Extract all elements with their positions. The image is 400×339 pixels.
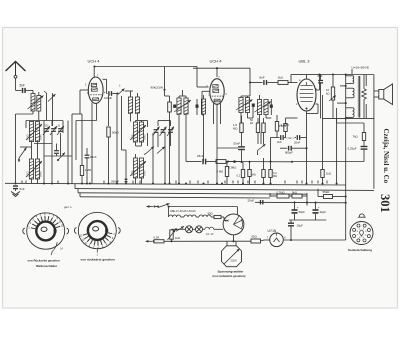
trimmer arrow L7 <box>130 161 146 176</box>
wire V3 cathode loop <box>305 104 318 114</box>
svg-text:32μF: 32μF <box>320 210 327 214</box>
coil IF2 secondary <box>245 98 249 119</box>
switch S3 <box>144 147 154 155</box>
wire V2 grid pins left <box>202 91 210 115</box>
heater filament chain <box>169 215 211 217</box>
svg-text:von Rückseite gesehen: von Rückseite gesehen <box>28 259 60 263</box>
switch S4 <box>157 147 165 154</box>
resistor 7kOhm <box>353 123 366 146</box>
capacitor 10nF to ground <box>13 185 25 191</box>
pilot lamp 1 <box>172 226 193 233</box>
capacitor padder c <box>57 126 64 135</box>
transformer T1 primary section 3 <box>346 108 354 118</box>
capacitor 50uF electrolytic <box>292 202 306 220</box>
label D2 caption <box>81 258 115 262</box>
wire AF line <box>186 161 202 163</box>
resistor grid leak b <box>269 160 277 183</box>
capacitor 6.3nF <box>85 148 97 184</box>
antenna <box>6 62 26 76</box>
wire V1 grid left <box>80 90 89 114</box>
bus stubs <box>22 181 327 184</box>
svg-text:25nF: 25nF <box>197 154 204 158</box>
mains input terminal lower <box>146 240 155 243</box>
bus junction dots <box>89 182 338 184</box>
coil oscillator A <box>128 91 133 114</box>
svg-text:1kΩ: 1kΩ <box>326 172 331 176</box>
resistor 0.1MOhm <box>275 115 289 138</box>
svg-text:Spannungswähler: Spannungswähler <box>218 270 245 274</box>
switch S7 shorting <box>175 226 184 231</box>
coil oscillator B <box>135 93 139 120</box>
resistor 150Ohm <box>279 118 298 138</box>
trimmer arrow IF3 <box>255 102 272 113</box>
resistor volume b <box>248 161 256 185</box>
wire AF junctions <box>226 160 293 163</box>
bus E power <box>255 201 346 220</box>
svg-text:1kΩ: 1kΩ <box>278 76 284 80</box>
coil L6 <box>139 121 143 147</box>
rectifier V4 UY1N <box>270 233 284 247</box>
svg-text:UBL3 UCH4 UCH4: UBL3 UCH4 UCH4 <box>170 209 196 213</box>
resistor 1.8MOhm <box>233 116 243 133</box>
wire coil bottoms to rail <box>32 179 38 184</box>
label coil values mid lower <box>131 170 147 176</box>
trimmer arrow antenna coil <box>28 96 44 110</box>
wire B+ taps <box>323 85 347 120</box>
coil IF2 primary <box>239 96 243 123</box>
wire verticals left cluster <box>44 121 68 184</box>
tube V3 label UBL3 <box>299 59 311 64</box>
resistor 2MOhm <box>217 162 229 185</box>
svg-text:Wellenschalter: Wellenschalter <box>36 264 58 268</box>
wire coil return to ground rail <box>16 111 34 184</box>
gramophone Gr terminals <box>284 136 296 140</box>
svg-text:kΩ: kΩ <box>326 92 330 96</box>
svg-text:5nF: 5nF <box>20 187 25 191</box>
trimmer arrow on L1 <box>26 124 42 140</box>
wire selector to mains <box>232 235 234 243</box>
svg-text:0,25μF: 0,25μF <box>348 147 357 151</box>
capacitor 20nF Gr <box>294 135 307 144</box>
svg-text:0,3MΩ: 0,3MΩ <box>228 166 236 170</box>
label coil values lower <box>26 171 43 177</box>
resistor 1kOhm screen <box>321 170 331 184</box>
resistor volume a <box>237 162 245 184</box>
node dots left <box>14 182 88 184</box>
svg-text:+: + <box>297 206 299 210</box>
svg-text:( Gr ): ( Gr ) <box>287 136 294 140</box>
coil L7 <box>133 158 137 184</box>
svg-text:50μF: 50μF <box>299 210 306 214</box>
wire V1 anode right <box>0 0 1 1</box>
transformer T1 core <box>358 76 360 118</box>
tube socket pinout <box>350 214 373 245</box>
wire V3 cathode down <box>305 114 307 184</box>
coil L1 0.5/9540 <box>29 122 33 142</box>
coil IF3 primary <box>257 95 261 123</box>
resistor 50kOhm ps <box>250 118 260 144</box>
wire 1.8M to 50nF <box>241 133 243 147</box>
capacitor trimmer b <box>50 126 57 135</box>
capacitor small a <box>54 144 59 157</box>
wire UY1N pins <box>264 237 346 242</box>
capacitor 100pF trimmer a <box>43 126 50 135</box>
svg-text:kΩ: kΩ <box>250 121 253 125</box>
svg-text:UCH 4: UCH 4 <box>88 59 101 64</box>
capacitor IF2 a <box>252 104 255 107</box>
coil IF1 third <box>201 95 205 162</box>
resistor heater dropper 90Ohm <box>208 212 229 221</box>
tube V1 internals <box>85 75 106 101</box>
switch S5 gram <box>258 133 266 156</box>
switch S1b <box>57 153 65 162</box>
svg-text:50nF: 50nF <box>234 142 241 146</box>
label 100 trimmer <box>45 126 50 128</box>
mains switch S6 <box>155 203 238 207</box>
wire verticals x72 x76 <box>72 114 82 184</box>
coil L8 <box>139 158 143 184</box>
capacitor IF1 a <box>173 105 176 108</box>
switch S0 antenna range <box>44 91 56 126</box>
dial drum D1 wave switch front <box>23 212 69 255</box>
tube V1 UCH4 envelope <box>88 77 103 103</box>
svg-text:von rückwärts gesehen: von rückwärts gesehen <box>81 258 115 262</box>
svg-text:110: 110 <box>225 219 230 223</box>
wire V1 pin5 right <box>103 79 108 93</box>
svg-text:0,7MΩ: 0,7MΩ <box>277 191 285 195</box>
capacitor 2nF Gr <box>277 135 284 144</box>
transformer T1 primary section 2 <box>346 88 354 98</box>
capacitor 25nF mains <box>248 198 264 204</box>
wire IF1 top <box>179 90 186 184</box>
svg-text:20nF: 20nF <box>294 141 301 145</box>
wire antenna to 5nF <box>16 78 22 90</box>
capacitor IF3 a <box>270 99 273 115</box>
svg-text:25nF: 25nF <box>248 198 255 202</box>
coil IF1 primary <box>177 96 181 118</box>
tube V1 label UCH4 <box>88 59 101 64</box>
trimmer arrow L5 <box>130 125 146 140</box>
svg-text:50kΩ: 50kΩ <box>112 131 120 135</box>
voltage selector rear octagon <box>222 246 242 267</box>
ground symbol <box>11 192 20 197</box>
capacitor 50nF <box>217 142 245 164</box>
wire osc coil bottoms <box>122 113 131 184</box>
svg-text:250pF: 250pF <box>111 180 119 184</box>
wire V3 anode to rail <box>307 73 346 90</box>
wire bus drop 90k node <box>163 67 165 91</box>
tube V2 label UCH4 <box>210 59 223 64</box>
voltage selector V front <box>223 214 244 235</box>
wire speaker frame <box>366 75 374 189</box>
transformer T1 primary section 1 <box>346 76 354 84</box>
svg-text:MΩ: MΩ <box>252 174 256 177</box>
trimmer arrow IF2 <box>236 100 253 111</box>
svg-text:150Ω: 150Ω <box>279 124 287 128</box>
label Sockelschaltung <box>348 248 372 252</box>
wire 7k top <box>337 118 364 123</box>
wire V2 top cap to bus2 <box>216 67 218 77</box>
svg-text:U=16÷50/VE: U=16÷50/VE <box>352 65 370 69</box>
tube V2 internals <box>206 76 227 102</box>
coil L2 9540 <box>35 122 39 142</box>
bus D <box>80 193 270 198</box>
capacitor 6nF <box>318 74 324 118</box>
rectifier V4 label UY1N <box>268 229 277 233</box>
svg-text:90kΩ/1W: 90kΩ/1W <box>151 86 164 90</box>
resistor 55kOhm <box>318 189 347 199</box>
svg-text:0,5A: 0,5A <box>154 236 160 240</box>
svg-text:MΩ: MΩ <box>233 127 237 131</box>
band switch S1 <box>18 148 27 163</box>
svg-text:90Ω: 90Ω <box>208 212 213 216</box>
wire AF to 0.25uF <box>292 161 364 163</box>
coil IF1 secondary <box>184 96 188 118</box>
svg-text:5nF: 5nF <box>20 84 26 88</box>
svg-text:UCH 4: UCH 4 <box>210 59 223 64</box>
resistor 1kOhm coupling <box>268 76 298 85</box>
dial drum D2 wave switch rear <box>74 212 120 256</box>
mains input terminal upper <box>147 205 156 208</box>
capacitor 0.25uF <box>348 146 368 162</box>
label Spannungswaehler <box>213 270 246 278</box>
heater labels <box>170 209 196 213</box>
wire IF2-IF3 link <box>248 107 272 118</box>
resistor 9kOhm <box>289 191 307 206</box>
wire Gr line <box>271 138 280 162</box>
wire screen rail <box>323 95 337 184</box>
fuse 0.5A <box>154 236 252 243</box>
svg-text:65Ω: 65Ω <box>252 235 257 239</box>
resistor 1kOhm mains <box>168 230 181 243</box>
wire V1 pins down <box>76 103 97 184</box>
wire V2 pins down <box>214 104 221 184</box>
wire heater drop <box>168 205 170 217</box>
capacitor 5nF <box>20 84 26 93</box>
label D1 caption <box>28 259 60 263</box>
svg-text:1kΩ: 1kΩ <box>175 236 180 240</box>
capacitor 100pF coupling <box>104 91 117 100</box>
capacitor 10uF <box>288 220 303 240</box>
label Wellenschalter <box>36 264 58 268</box>
antenna terminal <box>14 75 17 78</box>
svg-text:63nF: 63nF <box>90 155 97 159</box>
svg-text:0,1 1V: 0,1 1V <box>206 232 214 236</box>
coil IF3 secondary <box>264 100 268 119</box>
coil L3 lower <box>29 142 33 180</box>
coil antenna transformer secondary <box>37 92 41 121</box>
tube V3 internals <box>296 79 318 106</box>
coil antenna transformer primary <box>31 94 35 112</box>
ballast resistor UY1N heater <box>205 227 223 236</box>
wire top bus 2 <box>193 67 250 69</box>
wire mid horizontals <box>20 144 72 157</box>
resistor 0.7MOhm <box>270 191 289 199</box>
bus B <box>75 184 374 191</box>
svg-text:7kΩ: 7kΩ <box>353 135 359 139</box>
transformer T1 rail <box>345 73 347 240</box>
resistor 10kOhm tone <box>326 73 336 118</box>
svg-text:2 MΩ: 2 MΩ <box>217 170 224 174</box>
pilot lamp 2 <box>193 226 205 233</box>
svg-text:+: + <box>318 206 320 210</box>
svg-text:55kΩ: 55kΩ <box>323 190 331 194</box>
resistor anode 2 <box>262 118 265 144</box>
resistor 0.3MOhm <box>216 160 240 170</box>
capacitor 250pF <box>111 179 127 184</box>
svg-text:1MΩ: 1MΩ <box>85 168 92 172</box>
svg-text:UBL 3: UBL 3 <box>299 59 311 64</box>
svg-text:301: 301 <box>378 194 392 213</box>
svg-text:(von rückwärts gesehen): (von rückwärts gesehen) <box>213 274 246 278</box>
chassis bus A <box>5 183 346 185</box>
svg-text:2nF: 2nF <box>277 140 282 144</box>
wire IF2 tops <box>241 96 250 98</box>
wire speaker top <box>346 74 374 76</box>
coil L5 <box>133 121 137 147</box>
svg-text:MΩ: MΩ <box>273 174 277 178</box>
tube V2 UCH4 envelope <box>210 79 224 105</box>
capacitor 32uF electrolytic <box>313 203 327 220</box>
loudspeaker LS <box>374 84 393 105</box>
wire 5nF to antenna coil <box>26 90 33 93</box>
svg-text:Sockelschaltung: Sockelschaltung <box>348 248 372 252</box>
coil L4 lower <box>35 142 39 180</box>
svg-text:9540: 9540 <box>39 134 43 140</box>
wire selector feed <box>236 207 238 215</box>
wire bus2 down to 8nF <box>249 68 251 83</box>
wire V1 top cap to bus <box>93 67 95 78</box>
resistor 50kOhm <box>107 127 120 184</box>
capacitor trimmer d <box>153 127 160 137</box>
wire x112 x117 down <box>109 94 122 184</box>
label coil values upper <box>26 134 43 140</box>
trimmer arrow IF1 <box>174 100 191 112</box>
svg-text:8nF: 8nF <box>260 76 265 80</box>
svg-text:800pF: 800pF <box>285 151 293 155</box>
label 30 trimmer <box>58 126 61 128</box>
svg-text:9kΩ: 9kΩ <box>292 191 297 195</box>
capacitor trimmer f <box>167 127 174 137</box>
resistor 65Ohm <box>251 235 264 243</box>
label field coil U=16-50/VE <box>352 65 370 74</box>
wire cluster top <box>26 121 63 129</box>
resistor 1MOhm <box>80 156 92 184</box>
svg-text:gez. L: gez. L <box>64 205 73 209</box>
wire V3 top cap <box>291 75 307 83</box>
bus C <box>78 189 307 195</box>
transformer T1 secondary <box>362 75 367 119</box>
wire speaker bottom <box>346 117 374 119</box>
svg-text:0,2: 0,2 <box>237 175 241 178</box>
tube V3 UBL3 envelope <box>297 79 316 111</box>
capacitor 800pF <box>280 146 307 155</box>
svg-text:UY1N: UY1N <box>268 229 277 233</box>
capacitor 25nF series <box>197 154 216 164</box>
label coil values mid <box>131 134 147 140</box>
svg-text:220V: 220V <box>231 258 237 262</box>
svg-text:0,5Ω: 0,5Ω <box>26 134 30 140</box>
title Czeija Nissl u. Co <box>382 129 390 184</box>
wire top bus V1 to V2 grid <box>93 65 208 87</box>
capacitor trimmer e <box>160 127 167 137</box>
resistor grid leak a <box>262 158 265 184</box>
resistor 90kOhm/1W <box>151 86 172 184</box>
trimmer arrow on L3 <box>26 161 42 177</box>
wire cluster mid verticals <box>136 121 171 184</box>
capacitor 8nF <box>250 76 267 85</box>
wire 8nF node down <box>249 83 251 97</box>
svg-text:10μF: 10μF <box>297 223 304 227</box>
title 301 <box>378 194 392 213</box>
wire octagon risers <box>227 241 236 246</box>
capacitor IF1 b <box>196 99 199 115</box>
svg-text:Czeija, Nissl u. Co: Czeija, Nissl u. Co <box>382 129 390 184</box>
label gez L <box>64 205 73 209</box>
switch S2 <box>116 85 128 95</box>
